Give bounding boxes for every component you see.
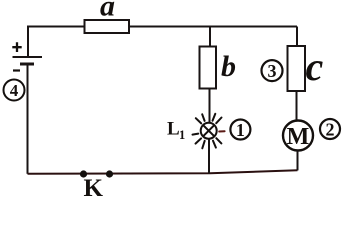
battery cell negative plate bbox=[20, 63, 34, 66]
circled 3 bbox=[262, 60, 283, 81]
rays bbox=[193, 114, 225, 149]
wire right branch: motor to bottom wire bbox=[297, 151, 299, 171]
minus sign bbox=[13, 69, 20, 71]
lamp L1 (lit bulb) bbox=[193, 114, 225, 149]
resistor R_a bbox=[85, 20, 130, 33]
svg-text:M: M bbox=[287, 124, 310, 150]
wire middle branch: resistor b to lamp bbox=[209, 89, 211, 124]
wire right branch: top corner to resistor c bbox=[296, 27, 298, 47]
svg-text:4: 4 bbox=[10, 81, 19, 100]
svg-text:b: b bbox=[221, 50, 236, 83]
svg-text:K: K bbox=[84, 175, 104, 199]
svg-text:c: c bbox=[306, 44, 324, 89]
plus sign bbox=[12, 42, 21, 52]
svg-text:3: 3 bbox=[268, 61, 277, 81]
svg-text:a: a bbox=[100, 0, 115, 23]
circled 1 bbox=[230, 120, 250, 140]
wire left vertical (below battery) bbox=[27, 64, 29, 174]
resistor R_b bbox=[200, 47, 217, 89]
svg-text:1: 1 bbox=[236, 120, 245, 140]
svg-text:1: 1 bbox=[179, 128, 185, 142]
wire middle branch: lamp to bottom wire bbox=[208, 139, 210, 174]
resistor R_c bbox=[288, 46, 306, 91]
motor M bbox=[283, 121, 313, 151]
wire top: left corner to resistor a bbox=[28, 27, 85, 58]
circled 4 bbox=[4, 80, 25, 101]
switch K contact dot right bbox=[106, 170, 113, 177]
svg-text:L: L bbox=[167, 119, 180, 140]
circled 2 bbox=[320, 119, 340, 139]
battery cell positive plate bbox=[13, 56, 43, 58]
wire middle branch: top junction to resistor b bbox=[209, 27, 211, 47]
switch K contact dot left bbox=[80, 170, 87, 177]
wire top: resistor a to right corner bbox=[129, 26, 297, 28]
svg-text:2: 2 bbox=[326, 119, 335, 139]
wire bottom bbox=[28, 170, 298, 174]
wire right branch: resistor c to motor bbox=[296, 91, 298, 121]
